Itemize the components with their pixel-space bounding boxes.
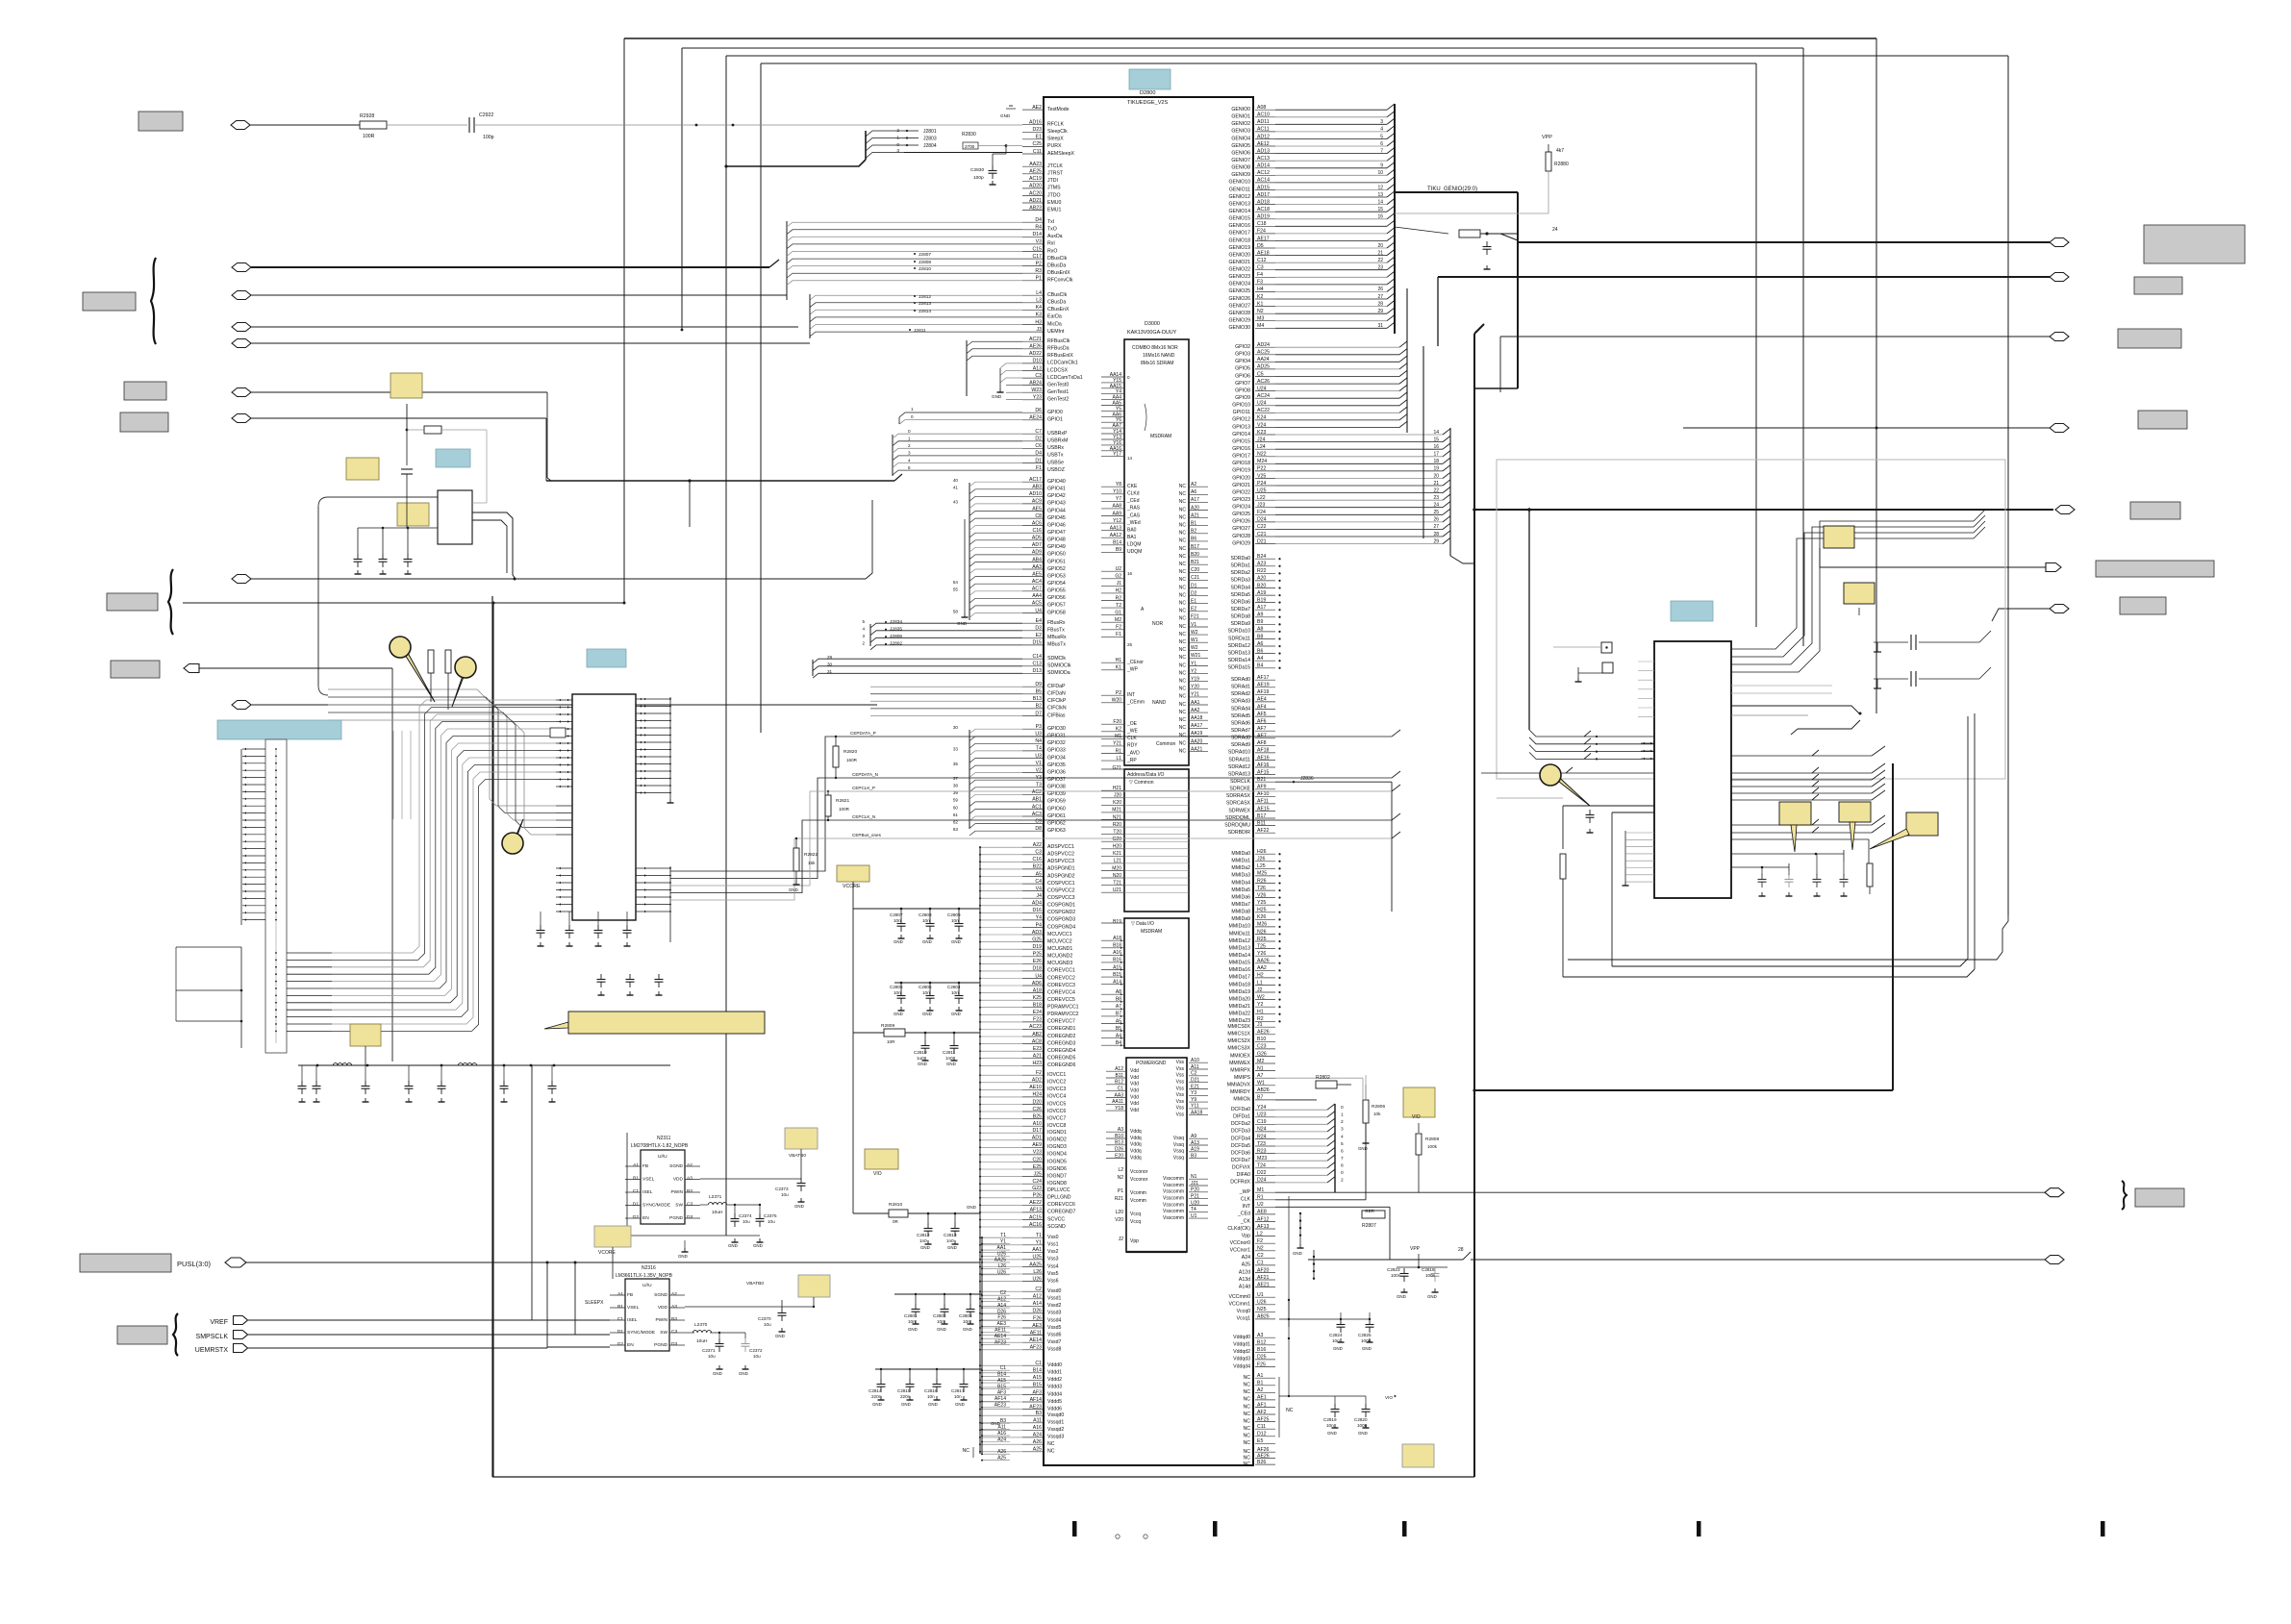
svg-text:27: 27 bbox=[1433, 524, 1439, 530]
svg-text:MMIDa8: MMIDa8 bbox=[1231, 910, 1250, 915]
svg-text:SDRDa8: SDRDa8 bbox=[1231, 614, 1251, 620]
svg-text:RFCLK: RFCLK bbox=[1047, 122, 1065, 128]
svg-text:SDRAd13: SDRAd13 bbox=[1228, 771, 1250, 777]
svg-text:6: 6 bbox=[1380, 141, 1383, 147]
svg-text:6: 6 bbox=[1341, 1148, 1344, 1154]
svg-text:Vss: Vss bbox=[1176, 1099, 1185, 1105]
svg-text:JTRST: JTRST bbox=[1047, 171, 1064, 177]
svg-text:Vccq: Vccq bbox=[1130, 1219, 1141, 1225]
svg-text:Vss: Vss bbox=[1176, 1073, 1185, 1079]
svg-text:GPIO8: GPIO8 bbox=[1235, 387, 1250, 393]
svg-text:Vpp: Vpp bbox=[1242, 1233, 1250, 1238]
svg-text:SDRDa11: SDRDa11 bbox=[1228, 636, 1250, 641]
svg-text:GENIO7: GENIO7 bbox=[1231, 158, 1250, 163]
svg-text:C2374: C2374 bbox=[739, 1213, 752, 1218]
svg-text:Vdd: Vdd bbox=[1130, 1068, 1139, 1074]
svg-text:GPIO25: GPIO25 bbox=[1232, 512, 1250, 517]
svg-text:B3: B3 bbox=[687, 1188, 692, 1194]
svg-text:J2808: J2808 bbox=[919, 260, 931, 265]
svg-text:MMIRPX: MMIRPX bbox=[1230, 1067, 1250, 1073]
svg-text:C2801: C2801 bbox=[904, 1313, 918, 1318]
svg-text:Vsscomm: Vsscomm bbox=[1163, 1202, 1184, 1208]
svg-text:C2814: C2814 bbox=[869, 1388, 882, 1393]
svg-text:C3: C3 bbox=[671, 1329, 677, 1335]
svg-text:NC: NC bbox=[1179, 491, 1187, 497]
svg-text:NC: NC bbox=[1179, 740, 1187, 746]
svg-text:PURX: PURX bbox=[1047, 143, 1062, 149]
svg-text:Vss: Vss bbox=[1176, 1112, 1185, 1118]
svg-text:GPIO55: GPIO55 bbox=[1047, 588, 1066, 594]
svg-text:NC: NC bbox=[1179, 670, 1187, 676]
svg-text:Vddd5: Vddd5 bbox=[1047, 1399, 1062, 1405]
svg-text:SDRAd12: SDRAd12 bbox=[1228, 764, 1250, 770]
svg-text:GPIO49: GPIO49 bbox=[1047, 544, 1066, 550]
svg-text:GND: GND bbox=[922, 1012, 932, 1016]
svg-text:29: 29 bbox=[1433, 538, 1439, 544]
svg-text:MMIDa3: MMIDa3 bbox=[1231, 873, 1250, 879]
svg-text:SDMIOClk: SDMIOClk bbox=[1047, 663, 1071, 669]
svg-text:COSPGND2: COSPGND2 bbox=[1047, 910, 1075, 915]
svg-text:MCUVCC1: MCUVCC1 bbox=[1047, 932, 1072, 937]
svg-text:RFConvClk: RFConvClk bbox=[1047, 278, 1073, 284]
svg-text:10n: 10n bbox=[951, 918, 959, 923]
svg-text:GENIO27: GENIO27 bbox=[1229, 303, 1251, 309]
svg-text:SDRDa15: SDRDa15 bbox=[1228, 665, 1250, 671]
svg-text:SDRDa10: SDRDa10 bbox=[1228, 629, 1250, 635]
svg-text:Vssd5: Vssd5 bbox=[1047, 1325, 1062, 1331]
svg-text:13: 13 bbox=[1377, 192, 1383, 198]
svg-text:VCORE: VCORE bbox=[598, 1250, 616, 1256]
svg-text:58: 58 bbox=[953, 609, 959, 613]
svg-text:GND: GND bbox=[739, 1371, 748, 1376]
svg-text:GENIO5: GENIO5 bbox=[1231, 143, 1250, 149]
svg-text:UDQM: UDQM bbox=[1127, 549, 1142, 555]
svg-text:EarDa: EarDa bbox=[1047, 314, 1062, 320]
svg-text:GENIO21: GENIO21 bbox=[1229, 260, 1251, 265]
svg-text:IOVCC3: IOVCC3 bbox=[1047, 1087, 1066, 1092]
svg-text:GPIO54: GPIO54 bbox=[1047, 581, 1066, 587]
svg-text:NC: NC bbox=[1244, 1404, 1251, 1410]
svg-text:L2371: L2371 bbox=[709, 1194, 722, 1200]
svg-text:2: 2 bbox=[1341, 1119, 1344, 1125]
svg-text:NOR: NOR bbox=[1152, 621, 1164, 627]
svg-text:DCFRdX: DCFRdX bbox=[1230, 1180, 1250, 1186]
svg-text:NC: NC bbox=[1179, 592, 1187, 598]
svg-text:61: 61 bbox=[953, 812, 959, 817]
svg-text:VBATB0: VBATB0 bbox=[789, 1153, 806, 1159]
svg-text:COSPVCC3: COSPVCC3 bbox=[1047, 895, 1075, 901]
svg-text:NC: NC bbox=[1244, 1389, 1251, 1395]
svg-text:10n: 10n bbox=[922, 918, 930, 923]
svg-text:SDRAd2: SDRAd2 bbox=[1231, 691, 1250, 697]
svg-text:GPIO52: GPIO52 bbox=[1047, 566, 1066, 572]
svg-text:GENIO23: GENIO23 bbox=[1229, 274, 1251, 280]
svg-text:NC: NC bbox=[1179, 702, 1187, 708]
svg-text:30: 30 bbox=[827, 662, 833, 667]
svg-text:GENIO22: GENIO22 bbox=[1229, 267, 1251, 273]
svg-text:GND: GND bbox=[728, 1243, 738, 1248]
svg-text:COREVCC2: COREVCC2 bbox=[1047, 975, 1075, 981]
svg-text:GENIO24: GENIO24 bbox=[1229, 282, 1251, 287]
svg-text:Vssd4: Vssd4 bbox=[1047, 1317, 1062, 1323]
svg-text:NC: NC bbox=[1244, 1418, 1251, 1424]
svg-text:63: 63 bbox=[953, 827, 959, 832]
svg-text:160R: 160R bbox=[846, 758, 858, 762]
svg-text:35: 35 bbox=[953, 762, 959, 766]
svg-text:NC: NC bbox=[1179, 499, 1187, 505]
svg-text:ADSPVCC1: ADSPVCC1 bbox=[1047, 844, 1074, 850]
svg-text:▽ Common: ▽ Common bbox=[1129, 780, 1154, 786]
svg-text:Vdd: Vdd bbox=[1130, 1101, 1139, 1107]
svg-text:Vssqd3: Vssqd3 bbox=[1047, 1435, 1064, 1440]
svg-text:8Mx16 SDRAM: 8Mx16 SDRAM bbox=[1141, 361, 1173, 366]
svg-text:NC: NC bbox=[1244, 1397, 1251, 1403]
svg-text:Vpp: Vpp bbox=[1130, 1238, 1139, 1244]
svg-text:NC: NC bbox=[1179, 616, 1187, 622]
svg-text:MMICS2X: MMICS2X bbox=[1227, 1038, 1250, 1044]
svg-text:NC: NC bbox=[1047, 1441, 1055, 1447]
svg-text:COREVCC3: COREVCC3 bbox=[1047, 983, 1075, 988]
svg-text:COREGND2: COREGND2 bbox=[1047, 1034, 1076, 1039]
svg-text:PWIN: PWIN bbox=[655, 1317, 667, 1323]
svg-text:SDRAd9: SDRAd9 bbox=[1231, 742, 1250, 748]
svg-text:GPIO4: GPIO4 bbox=[1235, 359, 1250, 364]
svg-text:26: 26 bbox=[1433, 517, 1439, 523]
svg-text:GPIO21: GPIO21 bbox=[1232, 483, 1250, 488]
svg-text:CEPBus_ones: CEPBus_ones bbox=[852, 833, 882, 837]
svg-text:15k: 15k bbox=[808, 861, 816, 865]
svg-text:1: 1 bbox=[908, 437, 911, 441]
svg-text:EN: EN bbox=[642, 1215, 649, 1221]
svg-text:C2803: C2803 bbox=[959, 1313, 972, 1318]
svg-text:14: 14 bbox=[1127, 456, 1133, 461]
svg-text:Vcomm: Vcomm bbox=[1130, 1198, 1146, 1204]
svg-text:IOVCC6: IOVCC6 bbox=[1047, 1109, 1066, 1114]
svg-text:Vsscomm: Vsscomm bbox=[1163, 1209, 1184, 1214]
svg-text:GPIO53: GPIO53 bbox=[1047, 573, 1066, 579]
svg-text:IOVCC7: IOVCC7 bbox=[1047, 1115, 1066, 1121]
svg-text:NC: NC bbox=[1179, 484, 1187, 489]
svg-text:GENIO15: GENIO15 bbox=[1229, 216, 1251, 222]
svg-text:MMIDa15: MMIDa15 bbox=[1229, 961, 1251, 966]
svg-text:MMIADVX: MMIADVX bbox=[1227, 1083, 1251, 1088]
svg-text:UEMRSTX: UEMRSTX bbox=[195, 1347, 229, 1354]
svg-text:GENIO26: GENIO26 bbox=[1229, 296, 1251, 302]
svg-text:V20: V20 bbox=[1115, 1217, 1123, 1223]
svg-text:C1: C1 bbox=[633, 1188, 639, 1194]
svg-text:NC: NC bbox=[1179, 562, 1187, 567]
svg-text:GND: GND bbox=[1000, 113, 1011, 118]
svg-text:22: 22 bbox=[1377, 258, 1383, 263]
svg-text:TestMode: TestMode bbox=[1047, 107, 1070, 112]
svg-text:25: 25 bbox=[1127, 642, 1133, 647]
svg-text:R2822: R2822 bbox=[804, 852, 818, 858]
svg-text:Vss4: Vss4 bbox=[1047, 1263, 1059, 1269]
svg-text:C1: C1 bbox=[617, 1316, 623, 1322]
svg-text:8: 8 bbox=[1341, 1163, 1344, 1169]
svg-text:0: 0 bbox=[1341, 1170, 1344, 1176]
svg-text:VIO: VIO bbox=[1385, 1395, 1393, 1400]
svg-text:CBusEnX: CBusEnX bbox=[1047, 307, 1070, 312]
svg-text:NC: NC bbox=[1179, 514, 1187, 520]
svg-text:MMIDa4: MMIDa4 bbox=[1231, 880, 1250, 886]
svg-text:GenTest2: GenTest2 bbox=[1047, 397, 1069, 403]
svg-text:CBusClk: CBusClk bbox=[1047, 292, 1068, 298]
svg-text:7: 7 bbox=[1341, 1156, 1344, 1162]
svg-text:GENIO8: GENIO8 bbox=[1231, 165, 1250, 171]
svg-text:GPIO23: GPIO23 bbox=[1232, 497, 1250, 503]
svg-text:CIFClkP: CIFClkP bbox=[1047, 698, 1067, 704]
svg-text:GND: GND bbox=[1327, 1431, 1337, 1436]
svg-text:NC: NC bbox=[1179, 679, 1187, 685]
svg-text:SDRDa7: SDRDa7 bbox=[1231, 607, 1251, 612]
svg-text:54: 54 bbox=[953, 580, 959, 585]
svg-text:NC: NC bbox=[1244, 1426, 1251, 1432]
svg-text:ISEL: ISEL bbox=[642, 1189, 653, 1195]
svg-text:Vddqd1: Vddqd1 bbox=[1233, 1342, 1250, 1348]
svg-text:GPIO39: GPIO39 bbox=[1047, 791, 1066, 797]
svg-text:CIFBias: CIFBias bbox=[1047, 712, 1066, 718]
svg-text:DCFVrX: DCFVrX bbox=[1232, 1165, 1251, 1171]
svg-text:10u: 10u bbox=[764, 1322, 771, 1327]
svg-text:R2821: R2821 bbox=[836, 798, 849, 804]
svg-text:MMICS0X: MMICS0X bbox=[1227, 1024, 1250, 1030]
svg-text:C2806: C2806 bbox=[919, 985, 932, 989]
svg-text:GENIO17: GENIO17 bbox=[1229, 231, 1251, 237]
svg-text:IOGND2: IOGND2 bbox=[1047, 1137, 1067, 1143]
svg-text:COSPGND3: COSPGND3 bbox=[1047, 917, 1075, 923]
svg-text:L2: L2 bbox=[1118, 1167, 1123, 1173]
svg-text:CEPDATA_N: CEPDATA_N bbox=[852, 772, 878, 777]
svg-text:14: 14 bbox=[1377, 199, 1383, 205]
svg-text:VIO: VIO bbox=[1412, 1114, 1421, 1120]
svg-text:GPIO29: GPIO29 bbox=[1232, 540, 1250, 546]
svg-text:CIFClkN: CIFClkN bbox=[1047, 706, 1067, 712]
svg-text:16: 16 bbox=[1377, 214, 1383, 220]
svg-text:C2802: C2802 bbox=[933, 1313, 946, 1318]
svg-text:9: 9 bbox=[1380, 163, 1383, 169]
svg-text:MMIDa13: MMIDa13 bbox=[1229, 945, 1251, 951]
svg-text:MMIDa14: MMIDa14 bbox=[1229, 953, 1251, 959]
svg-text:C2808: C2808 bbox=[919, 912, 932, 917]
svg-text:2: 2 bbox=[862, 641, 865, 646]
svg-text:10u: 10u bbox=[743, 1219, 750, 1224]
svg-text:GPIO24: GPIO24 bbox=[1232, 505, 1250, 511]
svg-text:IOVCC8: IOVCC8 bbox=[1047, 1123, 1066, 1129]
svg-text:10uH: 10uH bbox=[696, 1338, 708, 1344]
svg-text:GENIO4: GENIO4 bbox=[1231, 136, 1250, 141]
svg-text:C2815: C2815 bbox=[897, 1388, 911, 1393]
svg-text:GND: GND bbox=[918, 1062, 927, 1066]
svg-text:D1: D1 bbox=[633, 1202, 639, 1208]
svg-text:NAND: NAND bbox=[1152, 700, 1167, 706]
svg-text:GPIO43: GPIO43 bbox=[1047, 501, 1066, 507]
svg-text:A25: A25 bbox=[1242, 1262, 1250, 1268]
svg-text:NC: NC bbox=[1179, 601, 1187, 607]
svg-text:30: 30 bbox=[953, 725, 959, 730]
svg-text:NC: NC bbox=[1244, 1375, 1251, 1381]
svg-text:GPIO40: GPIO40 bbox=[1047, 479, 1066, 485]
svg-text:Vsscomm: Vsscomm bbox=[1163, 1183, 1184, 1188]
svg-text:5: 5 bbox=[908, 465, 911, 470]
svg-text:DCFDa7: DCFDa7 bbox=[1231, 1158, 1250, 1163]
svg-text:NC: NC bbox=[1179, 523, 1187, 529]
svg-text:RDY: RDY bbox=[1127, 743, 1138, 749]
svg-text:GPIO20: GPIO20 bbox=[1232, 475, 1250, 481]
svg-text:0: 0 bbox=[908, 429, 911, 434]
svg-text:LCDCamClk1: LCDCamClk1 bbox=[1047, 361, 1078, 366]
svg-text:Vdd: Vdd bbox=[1130, 1082, 1139, 1087]
svg-text:18: 18 bbox=[1433, 459, 1439, 464]
svg-text:SCVCC: SCVCC bbox=[1047, 1216, 1065, 1222]
svg-text:GND: GND bbox=[951, 939, 961, 944]
svg-text:GND: GND bbox=[955, 1402, 965, 1407]
svg-text:SDRDa13: SDRDa13 bbox=[1228, 650, 1250, 656]
svg-text:GPIO1: GPIO1 bbox=[1047, 417, 1063, 423]
svg-text:Address/Data I/O: Address/Data I/O bbox=[1127, 772, 1164, 778]
svg-text:NC: NC bbox=[1179, 632, 1187, 637]
svg-text:KAK13V00GA-DUUY: KAK13V00GA-DUUY bbox=[1127, 330, 1177, 336]
svg-text:VIO: VIO bbox=[873, 1171, 882, 1177]
svg-text:GND: GND bbox=[928, 1402, 938, 1407]
svg-text:SDRAd4: SDRAd4 bbox=[1231, 706, 1250, 712]
svg-text:COREVCC7: COREVCC7 bbox=[1047, 1019, 1075, 1025]
svg-text:GPIO26: GPIO26 bbox=[1232, 519, 1250, 525]
svg-text:CBusDa: CBusDa bbox=[1047, 300, 1066, 306]
svg-text:CEPCLK_P: CEPCLK_P bbox=[852, 786, 875, 790]
svg-text:SMPSCLK: SMPSCLK bbox=[196, 1334, 229, 1340]
svg-text:VDD: VDD bbox=[658, 1305, 668, 1311]
svg-text:GPIO38: GPIO38 bbox=[1047, 785, 1066, 790]
svg-text:RxI: RxI bbox=[1047, 241, 1055, 247]
svg-text:22: 22 bbox=[1433, 487, 1439, 493]
svg-text:GPIO44: GPIO44 bbox=[1047, 508, 1066, 513]
svg-text:J2806: J2806 bbox=[890, 634, 902, 639]
svg-text:MMIClk: MMIClk bbox=[1233, 1097, 1250, 1103]
svg-text:_WE: _WE bbox=[1126, 729, 1139, 735]
svg-text:NC: NC bbox=[1179, 694, 1187, 700]
svg-text:R2880: R2880 bbox=[1554, 162, 1569, 167]
svg-text:C2811: C2811 bbox=[943, 1050, 956, 1055]
svg-text:DIFA0: DIFA0 bbox=[1237, 1172, 1251, 1178]
svg-text:Vss: Vss bbox=[1176, 1060, 1185, 1065]
svg-text:19: 19 bbox=[1433, 466, 1439, 472]
svg-text:AuxDa: AuxDa bbox=[1047, 234, 1063, 239]
svg-text:COREGND6: COREGND6 bbox=[1047, 1062, 1076, 1068]
svg-text:15: 15 bbox=[1377, 207, 1383, 212]
svg-text:R2820: R2820 bbox=[843, 749, 857, 755]
svg-text:J2836: J2836 bbox=[1300, 776, 1314, 782]
svg-text:COREGND3: COREGND3 bbox=[1047, 1040, 1076, 1046]
svg-text:GND: GND bbox=[1362, 1346, 1372, 1351]
svg-text:C2825: C2825 bbox=[1358, 1333, 1372, 1337]
svg-text:USBOZ: USBOZ bbox=[1047, 467, 1065, 473]
svg-text:NC: NC bbox=[963, 1448, 970, 1454]
svg-text:MMIDa5: MMIDa5 bbox=[1231, 887, 1250, 893]
svg-text:Vss6: Vss6 bbox=[1047, 1278, 1059, 1284]
svg-text:2: 2 bbox=[1341, 1178, 1344, 1184]
svg-text:G21: G21 bbox=[1113, 765, 1122, 771]
svg-text:J2803: J2803 bbox=[923, 137, 937, 142]
svg-text:100n: 100n bbox=[1391, 1273, 1401, 1278]
svg-text:SDMClk: SDMClk bbox=[1047, 656, 1066, 662]
svg-text:USBRxP: USBRxP bbox=[1047, 431, 1068, 437]
svg-text:BA0: BA0 bbox=[1127, 527, 1137, 533]
svg-text:MMIDa18: MMIDa18 bbox=[1229, 982, 1251, 987]
svg-text:_CEnor: _CEnor bbox=[1126, 660, 1144, 665]
svg-text:C2372: C2372 bbox=[749, 1348, 763, 1353]
svg-text:MMIOEX: MMIOEX bbox=[1230, 1053, 1251, 1059]
svg-text:J2835: J2835 bbox=[890, 627, 902, 633]
svg-text:SGND: SGND bbox=[654, 1292, 667, 1298]
svg-text:COREVCC6: COREVCC6 bbox=[1047, 1202, 1075, 1208]
svg-text:GPIO45: GPIO45 bbox=[1047, 515, 1066, 521]
svg-text:3: 3 bbox=[1341, 1127, 1344, 1133]
svg-text:10u: 10u bbox=[781, 1192, 789, 1197]
svg-text:31: 31 bbox=[827, 669, 833, 674]
svg-text:GPIO13: GPIO13 bbox=[1232, 424, 1250, 430]
svg-text:GND: GND bbox=[963, 1327, 972, 1332]
svg-text:GPIO30: GPIO30 bbox=[1047, 726, 1066, 732]
svg-text:GPIO56: GPIO56 bbox=[1047, 595, 1066, 601]
svg-text:LCDCamTxDa1: LCDCamTxDa1 bbox=[1047, 375, 1083, 381]
svg-text:TIKU_GENIO(29:0): TIKU_GENIO(29:0) bbox=[1427, 187, 1477, 192]
svg-text:_OE: _OE bbox=[1126, 721, 1138, 727]
svg-text:MMIDa7: MMIDa7 bbox=[1231, 902, 1250, 908]
svg-text:GPIO18: GPIO18 bbox=[1232, 461, 1250, 466]
svg-text:Vss: Vss bbox=[1176, 1066, 1185, 1072]
svg-text:GND: GND bbox=[992, 394, 1002, 399]
svg-text:SleepX: SleepX bbox=[1047, 137, 1064, 142]
svg-text:N2: N2 bbox=[1118, 1175, 1124, 1181]
svg-text:Vcconor: Vcconor bbox=[1130, 1169, 1148, 1175]
svg-text:COSPGND4: COSPGND4 bbox=[1047, 924, 1075, 930]
svg-text:Vss1: Vss1 bbox=[1047, 1242, 1059, 1248]
svg-text:0: 0 bbox=[1341, 1105, 1344, 1111]
svg-text:MBusRx: MBusRx bbox=[1047, 635, 1067, 640]
svg-text:FB: FB bbox=[642, 1163, 648, 1169]
svg-text:NC: NC bbox=[1179, 748, 1187, 754]
svg-text:29: 29 bbox=[827, 655, 833, 660]
svg-text:10n: 10n bbox=[922, 990, 930, 995]
svg-text:CLKd(CK): CLKd(CK) bbox=[1227, 1226, 1250, 1232]
svg-text:P1: P1 bbox=[1118, 1188, 1123, 1194]
svg-text:_RP: _RP bbox=[1126, 758, 1137, 763]
svg-text:NC: NC bbox=[1179, 569, 1187, 575]
svg-text:COSPGND1: COSPGND1 bbox=[1047, 903, 1075, 909]
svg-text:Vddq: Vddq bbox=[1130, 1142, 1142, 1148]
svg-text:Vddd2: Vddd2 bbox=[1047, 1377, 1062, 1383]
svg-text:JTCLK: JTCLK bbox=[1047, 163, 1063, 169]
svg-text:VPP: VPP bbox=[1410, 1246, 1421, 1252]
svg-text:DCFDa3: DCFDa3 bbox=[1231, 1129, 1250, 1135]
svg-text:FBusRx: FBusRx bbox=[1047, 620, 1066, 626]
svg-text:Vddq: Vddq bbox=[1130, 1129, 1142, 1135]
svg-text:GPIO58: GPIO58 bbox=[1047, 610, 1066, 615]
svg-text:DCFDa0: DCFDa0 bbox=[1231, 1107, 1250, 1112]
svg-text:NC: NC bbox=[1244, 1383, 1251, 1388]
svg-text:EN: EN bbox=[627, 1342, 634, 1348]
svg-text:IOVCC1: IOVCC1 bbox=[1047, 1072, 1066, 1078]
svg-text:USBRx: USBRx bbox=[1047, 445, 1064, 451]
svg-text:GENIO12: GENIO12 bbox=[1229, 194, 1251, 200]
svg-text:USBRxM: USBRxM bbox=[1047, 438, 1068, 444]
svg-text:GND: GND bbox=[922, 939, 932, 944]
svg-text:MMICS1X: MMICS1X bbox=[1227, 1032, 1250, 1037]
svg-text:C2819: C2819 bbox=[1323, 1417, 1337, 1422]
svg-text:VBATB0: VBATB0 bbox=[746, 1281, 764, 1287]
svg-text:GPIO61: GPIO61 bbox=[1047, 813, 1066, 819]
